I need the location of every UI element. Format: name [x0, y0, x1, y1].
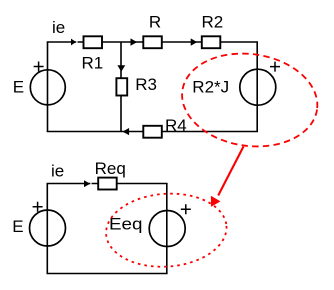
annotation: red arrow from top ellipse to bottom ellipse [218, 147, 243, 196]
arrow: on top wire before R2 [191, 38, 198, 45]
wire: bottom circuit right vertical [166, 184, 168, 274]
svg-text:R2*J: R2*J [192, 78, 229, 97]
voltage source E (top) [30, 70, 65, 105]
svg-text:R: R [149, 13, 161, 32]
svg-text:Req: Req [95, 159, 126, 178]
svg-text:Eeq: Eeq [109, 215, 143, 234]
plus sign of source Eeq [181, 204, 191, 214]
plus sign of source E (top) [34, 62, 44, 72]
arrow: downward on R3 branch [117, 65, 125, 72]
resistor R4 [143, 126, 162, 138]
plus sign of source R2*J [270, 62, 280, 72]
wire: top circuit top horizontal [47, 41, 258, 43]
wire: bottom circuit left vertical [46, 184, 48, 274]
resistor R [143, 36, 162, 48]
svg-text:R1: R1 [82, 54, 104, 73]
svg-text:R3: R3 [135, 75, 157, 94]
svg-text:E: E [12, 217, 23, 236]
arrow: current ie on bottom circuit top wire [90, 182, 91, 185]
arrow: on top wire after junction [131, 38, 138, 45]
source R2*J (top right) [240, 69, 276, 105]
annotation: red dashed ellipse around R2*J source [176, 45, 323, 155]
wire: R3 branch vertical [120, 42, 122, 132]
resistor R2 [202, 36, 221, 48]
source Eeq [149, 211, 185, 247]
plus sign of source E (bottom) [33, 202, 43, 212]
resistor R3 [116, 78, 127, 95]
resistor Req [98, 178, 117, 190]
wire: bottom circuit top horizontal [47, 183, 168, 185]
resistor R1 [84, 36, 103, 48]
wire: top circuit right vertical [256, 42, 258, 132]
svg-text:E: E [13, 78, 24, 97]
svg-text:R4: R4 [165, 116, 187, 135]
annotation: red dashed ellipse around Eeq source [104, 190, 229, 271]
arrow: current ie on top wire [76, 41, 77, 44]
wire: top circuit left vertical [47, 42, 49, 132]
svg-text:ie: ie [52, 18, 65, 37]
arrow: leftward on bottom wire [123, 128, 130, 135]
svg-text:ie: ie [51, 161, 64, 180]
wire: bottom circuit bottom horizontal [47, 273, 168, 275]
voltage source E (bottom) [30, 210, 66, 246]
wire: top circuit bottom horizontal [47, 131, 258, 133]
svg-text:R2: R2 [202, 13, 224, 32]
